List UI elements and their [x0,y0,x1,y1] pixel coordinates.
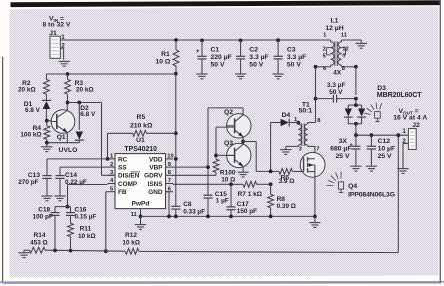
ground C3 [273,74,284,79]
svg-text:10 Ω: 10 Ω [221,177,235,184]
svg-text:R100: R100 [220,169,236,176]
transistor Q4 mosfet [300,152,325,216]
wire RC to C13 [47,159,108,176]
node VOUT-680 [354,133,358,137]
svg-text:10: 10 [167,154,173,160]
svg-text:C16: C16 [75,206,87,213]
transistor Q1 [47,110,75,142]
svg-text:4X: 4X [333,70,342,77]
ground source rail [309,216,320,227]
node VIN-C2 [239,39,243,43]
ground J2 [397,169,408,174]
diode D2 zener [75,103,96,143]
diode D1 zener [24,100,51,120]
wire divider rail left [24,249,29,251]
svg-text:C8: C8 [183,201,192,208]
svg-text:UVLO: UVLO [59,147,78,154]
ground C13 [41,196,52,201]
wire base link [214,127,235,159]
svg-text:12 µH: 12 µH [325,25,343,32]
wire VDD rail [46,73,175,75]
wire rail R14-R12 [45,250,125,251]
ground C14 [54,196,65,201]
svg-text:20 kΩ: 20 kΩ [76,87,94,94]
svg-text:+: + [349,142,353,148]
label UVLO [59,147,78,154]
svg-text:R8: R8 [277,196,286,203]
svg-text:C17: C17 [237,201,249,208]
diode D3 package outline [364,103,381,122]
wire comp node [55,207,71,213]
ground J1 [59,61,70,66]
wire D4 anode down [270,123,272,172]
svg-text:Q1: Q1 [57,134,66,141]
svg-text:TPS40210: TPS40210 [124,146,157,153]
resistor R5 [108,114,176,159]
output label VOUT [393,108,427,122]
connector J1 [49,30,65,58]
resistor R3 [65,74,94,103]
svg-text:IPP084N06L3G: IPP084N06L3G [348,191,395,198]
resistor R4 [20,121,49,143]
capacitor C8 [171,201,205,217]
node VOUT-FB [396,133,400,137]
ground L1 pin11 [356,43,367,48]
pin 11 PwPd [131,209,141,218]
transformer T1 [298,123,307,147]
node cap-D3 [354,97,358,101]
op-amp U1 body [108,137,174,209]
node rail-R11 [69,249,73,253]
svg-text:25 V: 25 V [336,153,350,160]
svg-text:50 V: 50 V [287,62,301,69]
capacitor C17 [226,182,257,216]
svg-text:10 Ω: 10 Ω [155,59,170,66]
ground Q3 [238,172,249,177]
wire GND pin6 drop [166,192,170,217]
resistor R12 [122,232,140,254]
svg-text:R12: R12 [125,232,137,239]
wire J1 pin2 to ground [60,48,63,60]
wire T1 pin3 to ground [286,146,299,149]
wire J2 pin2 to ground [403,143,408,168]
wire L1 pin8 down [342,65,358,95]
capacitor C13 [18,172,51,195]
wire VDD vertical [175,74,177,207]
svg-text:10 kΩ: 10 kΩ [78,233,96,240]
svg-text:3.3 µF: 3.3 µF [327,82,346,89]
connector J2 [402,122,420,149]
svg-text:50 V: 50 V [249,62,263,69]
svg-text:U1: U1 [136,137,145,144]
resistor R8 [268,184,296,216]
svg-text:25 V: 25 V [378,153,392,160]
svg-text:10 µF: 10 µF [378,145,396,152]
ground 680uF [350,166,361,171]
node R4-gnd [45,141,49,145]
node T1 pin1 [296,121,300,125]
svg-text:7: 7 [168,178,171,184]
svg-text:150 pF: 150 pF [237,208,257,215]
svg-text:VDD: VDD [149,156,163,163]
resistor R100 [213,159,236,183]
wire L1 pin11 to ground [342,40,362,43]
svg-text:0.39 Ω: 0.39 Ω [277,203,296,210]
svg-text:210 kΩ: 210 kΩ [130,123,153,130]
svg-text:270 pF: 270 pF [18,179,38,186]
capacitor C16 [66,206,96,223]
wire FB drop [106,192,108,252]
diode D4 [271,112,299,126]
wire FB tap down [397,135,399,252]
ground UVLO [41,143,52,152]
svg-text:2: 2 [110,162,113,168]
wire gate path [243,142,279,172]
svg-text:3.3 µF: 3.3 µF [287,54,306,61]
svg-text:RC: RC [118,156,128,163]
op-amp U1 pin numbers [110,154,174,193]
node FB-rail [104,249,108,253]
svg-text:100 kΩ: 100 kΩ [20,132,41,139]
node rail-C18 [53,249,57,253]
svg-text:ISNS: ISNS [148,181,164,188]
capacitor C1 [196,40,232,74]
svg-text:11: 11 [131,212,138,218]
wire ground rail [141,215,315,217]
wire emitter row [47,133,80,143]
resistor R7 [238,181,271,197]
wire VBP rail up [207,108,209,195]
svg-text:L1: L1 [331,18,339,25]
node RC-R5 [106,157,110,161]
svg-text:7: 7 [316,146,319,152]
ground divider [18,250,29,257]
node VIN-R1 [174,38,178,42]
svg-text:0.15 µF: 0.15 µF [75,214,97,221]
wire VOUT rail [356,134,409,136]
wire Q2 base [216,126,235,128]
transistor Q2 [224,109,251,138]
svg-text:0.33 µF: 0.33 µF [183,209,205,216]
node VDD-R5 [174,131,178,135]
wire UVLO output [68,103,116,176]
svg-text:GDRV: GDRV [144,173,163,180]
capacitor C2 [236,40,269,74]
wire ISNS [173,183,243,185]
svg-text:SS: SS [118,165,127,172]
ground C1 [196,74,207,79]
svg-text:6.8 V: 6.8 V [25,107,41,114]
wire SS to C14 [60,167,108,176]
svg-text:R7 1 kΩ: R7 1 kΩ [238,191,262,198]
wire GDRV [173,174,216,176]
ground T1 pin3 [280,150,291,155]
input label VIN [43,15,71,28]
svg-text:Q2: Q2 [224,109,233,116]
svg-text:R5: R5 [137,114,146,121]
node gndrail-pin6 [167,215,171,219]
node pin11-gnd [139,215,143,219]
capacitor 680uF bank [330,135,360,166]
capacitor C12 [367,135,395,166]
node VBP-line [206,165,210,169]
resistor R1 [155,40,178,74]
svg-text:D4: D4 [282,112,291,119]
inductor L1 windings [327,40,346,67]
svg-text:R14: R14 [34,232,46,239]
ground C2 [235,74,246,79]
svg-text:20 kΩ: 20 kΩ [18,87,36,94]
svg-text:C3: C3 [287,47,296,54]
node collector-R3 [66,101,70,105]
svg-text:6.8 V: 6.8 V [80,111,96,118]
svg-text:1: 1 [402,128,406,135]
diode D3 [344,99,366,136]
svg-text:1 µF: 1 µF [216,197,229,204]
capacitor 3.3uF coupling [316,82,356,103]
svg-text:10 kΩ: 10 kΩ [122,239,140,246]
svg-text:16 V at 4 A: 16 V at 4 A [393,115,427,122]
node switch-cap [314,97,318,101]
wire L1 pin6 to switch node [316,66,331,68]
node gndrail-R8 [269,215,273,219]
svg-text:50 V: 50 V [211,62,225,69]
node vddrail-R3 [66,72,70,76]
svg-text:R11: R11 [80,226,92,233]
capacitor C18 [33,206,60,250]
node base-D1 [45,119,49,123]
capacitor C14 [55,172,86,195]
node VDD-rail-R1 [174,72,178,76]
svg-text:50:1: 50:1 [299,108,313,115]
svg-text:FB: FB [118,189,127,196]
wire COMP drop [68,185,108,207]
svg-text:3X: 3X [339,138,348,145]
svg-text:100 pF: 100 pF [33,214,53,221]
node D2-top [77,101,81,105]
node VOUT-C12 [370,133,374,137]
svg-text:R1: R1 [161,51,170,58]
svg-text:C12: C12 [378,138,391,145]
resistor R2 [18,74,49,100]
transformer T1 labels [294,102,321,153]
svg-text:Q4: Q4 [348,183,357,190]
svg-text:11: 11 [341,33,348,39]
svg-text:DIS/EN: DIS/EN [118,173,140,180]
diode D3 labels [377,85,422,99]
node VIN-C1 [200,39,204,43]
resistor R14 [29,232,47,253]
svg-text:8 to 32 V: 8 to 32 V [43,22,71,29]
svg-text:680 µF: 680 µF [330,145,351,152]
inductor L1 labels [323,18,349,77]
wire Q1 collector [66,103,68,111]
svg-text:453 Ω: 453 Ω [30,239,48,246]
node comp-node [66,205,70,209]
wire Q2-Q3 junction [241,137,245,144]
node gndrail-C15 [206,215,210,219]
svg-text:3.3 µF: 3.3 µF [249,54,268,61]
node VIN-C3 [276,38,280,42]
svg-text:GND: GND [148,189,163,196]
svg-text:2: 2 [323,46,326,52]
svg-text:VBP: VBP [149,165,163,172]
svg-text:3.9 Ω: 3.9 Ω [279,178,295,185]
node gate-R8 [269,170,273,174]
capacitor C3 [274,40,307,74]
resistor R6 [279,169,304,186]
wire T1 pin7 to drain [308,146,315,158]
wire Q3 emitter [242,167,244,172]
transistor Q4 labels [348,183,395,198]
wire VBP [173,166,208,168]
node gndrail-C8 [174,215,178,219]
wire VIN top rail [60,39,330,41]
svg-text:C18: C18 [38,206,50,213]
wire Q2 collector top [208,108,243,114]
node gndrail-C17 [229,215,233,219]
wire switch node down [315,67,317,123]
transistor Q3 [224,140,251,168]
svg-text:MBR20L60CT: MBR20L60CT [377,91,422,99]
svg-text:PwPd: PwPd [132,201,150,208]
wire T1 pin8 up [308,122,316,124]
ground U1 PwPd [135,216,146,229]
wire rail to FB tap [139,251,399,252]
node R7-R8 [269,182,273,186]
svg-text:+: + [196,48,200,55]
capacitor C15 [203,191,228,217]
node VDD-pin10 [174,157,178,161]
svg-text:COMP: COMP [118,181,138,188]
node switch-L1 [314,65,318,69]
ground C12 [366,166,377,171]
node gndrail-Q4 [313,215,317,219]
svg-text:220 µF: 220 µF [211,54,232,61]
svg-text:C2: C2 [249,47,258,54]
transistor Q4 package outline [327,172,344,193]
svg-text:C1: C1 [211,47,220,54]
resistor R11 [68,223,96,250]
